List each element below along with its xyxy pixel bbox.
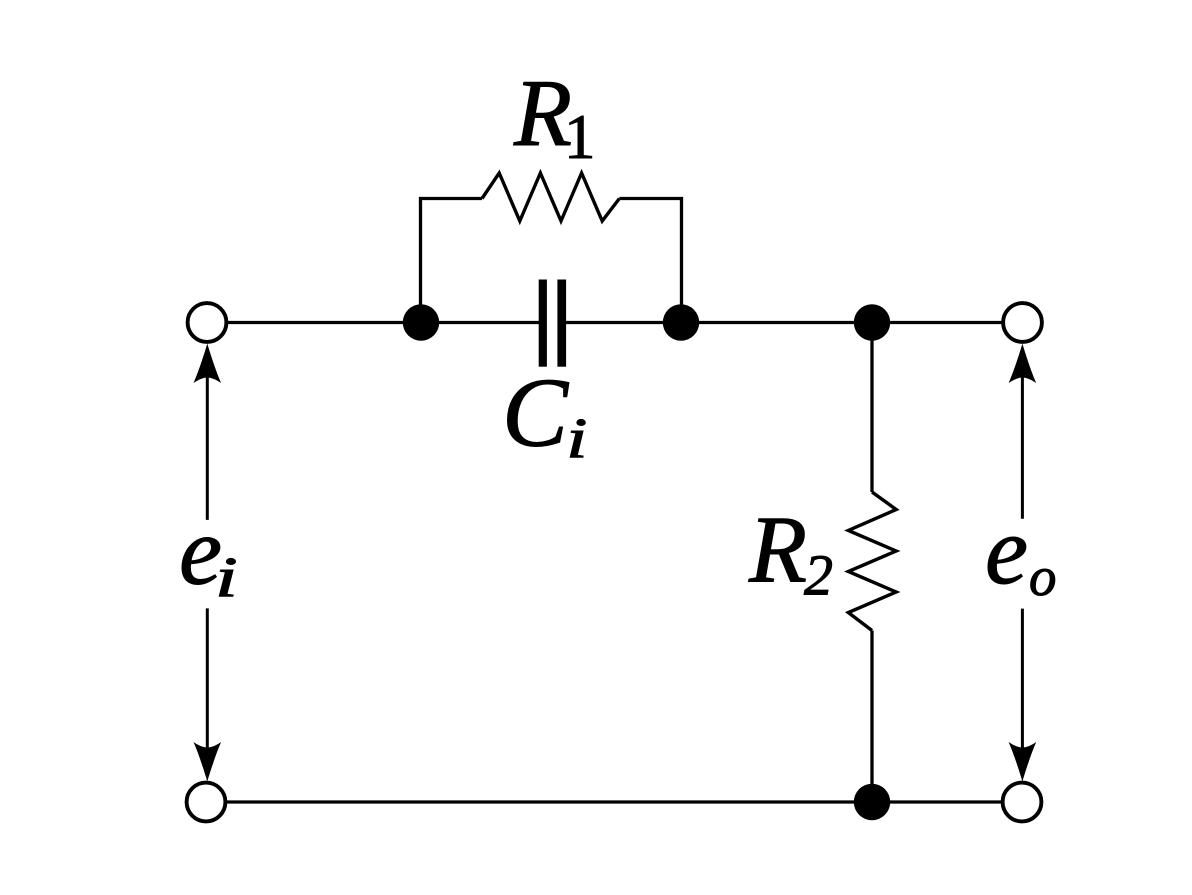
- wire: top rail, node A to capacitor left plate: [421, 321, 540, 324]
- resistor R1 zigzag: [482, 173, 619, 221]
- resistor R2 zigzag: [848, 492, 896, 631]
- wire: eo arrow shaft upper: [1021, 374, 1024, 519]
- capacitor Ci left plate: [539, 280, 547, 367]
- wire: R1 left riser from node A: [421, 199, 483, 323]
- wire: R2 column from node C down to zigzag: [870, 323, 873, 493]
- svg-text:i: i: [566, 407, 587, 470]
- arrowhead eo down (above output bottom terminal): [1009, 742, 1037, 782]
- wire: top rail, left terminal to node A: [226, 321, 421, 324]
- node A (junction dot, top left): [403, 304, 439, 340]
- arrowhead ei down (above input bottom terminal): [194, 742, 222, 782]
- wire: bottom rail, node D to right terminal: [872, 800, 1002, 803]
- svg-text:C: C: [502, 358, 569, 467]
- svg-text:R: R: [748, 497, 807, 603]
- svg-text:e: e: [985, 497, 1028, 604]
- wire: eo arrow shaft lower: [1021, 609, 1024, 750]
- node D (junction dot, bottom): [854, 784, 890, 820]
- terminal: input bottom (open circle): [187, 783, 226, 822]
- capacitor Ci right plate: [557, 280, 566, 367]
- arrowhead eo up (under output top terminal): [1009, 344, 1037, 384]
- wire: ei arrow shaft lower: [206, 608, 209, 750]
- svg-text:1: 1: [564, 102, 596, 172]
- arrowhead ei up (under input top terminal): [194, 344, 222, 384]
- wire: R1 right riser to node B: [619, 199, 681, 323]
- terminal: output top (open circle): [1003, 303, 1042, 342]
- wire: top rail, capacitor right plate to node B: [565, 321, 681, 324]
- wire: ei arrow shaft upper: [206, 374, 209, 520]
- wire: top rail, node C to right terminal: [872, 321, 1003, 324]
- terminal: input top (open circle): [188, 303, 227, 342]
- node B (junction dot, top middle): [663, 304, 699, 340]
- node C (junction dot, top right): [854, 304, 890, 340]
- terminal: output bottom (open circle): [1003, 783, 1042, 822]
- svg-text:i: i: [215, 547, 238, 610]
- wire: bottom rail, left terminal to node D: [226, 800, 872, 803]
- svg-text:2: 2: [804, 543, 833, 608]
- svg-text:o: o: [1029, 546, 1057, 607]
- wire: top rail, node B to node C: [681, 321, 872, 324]
- wire: R2 column from zigzag down to node D: [870, 631, 873, 803]
